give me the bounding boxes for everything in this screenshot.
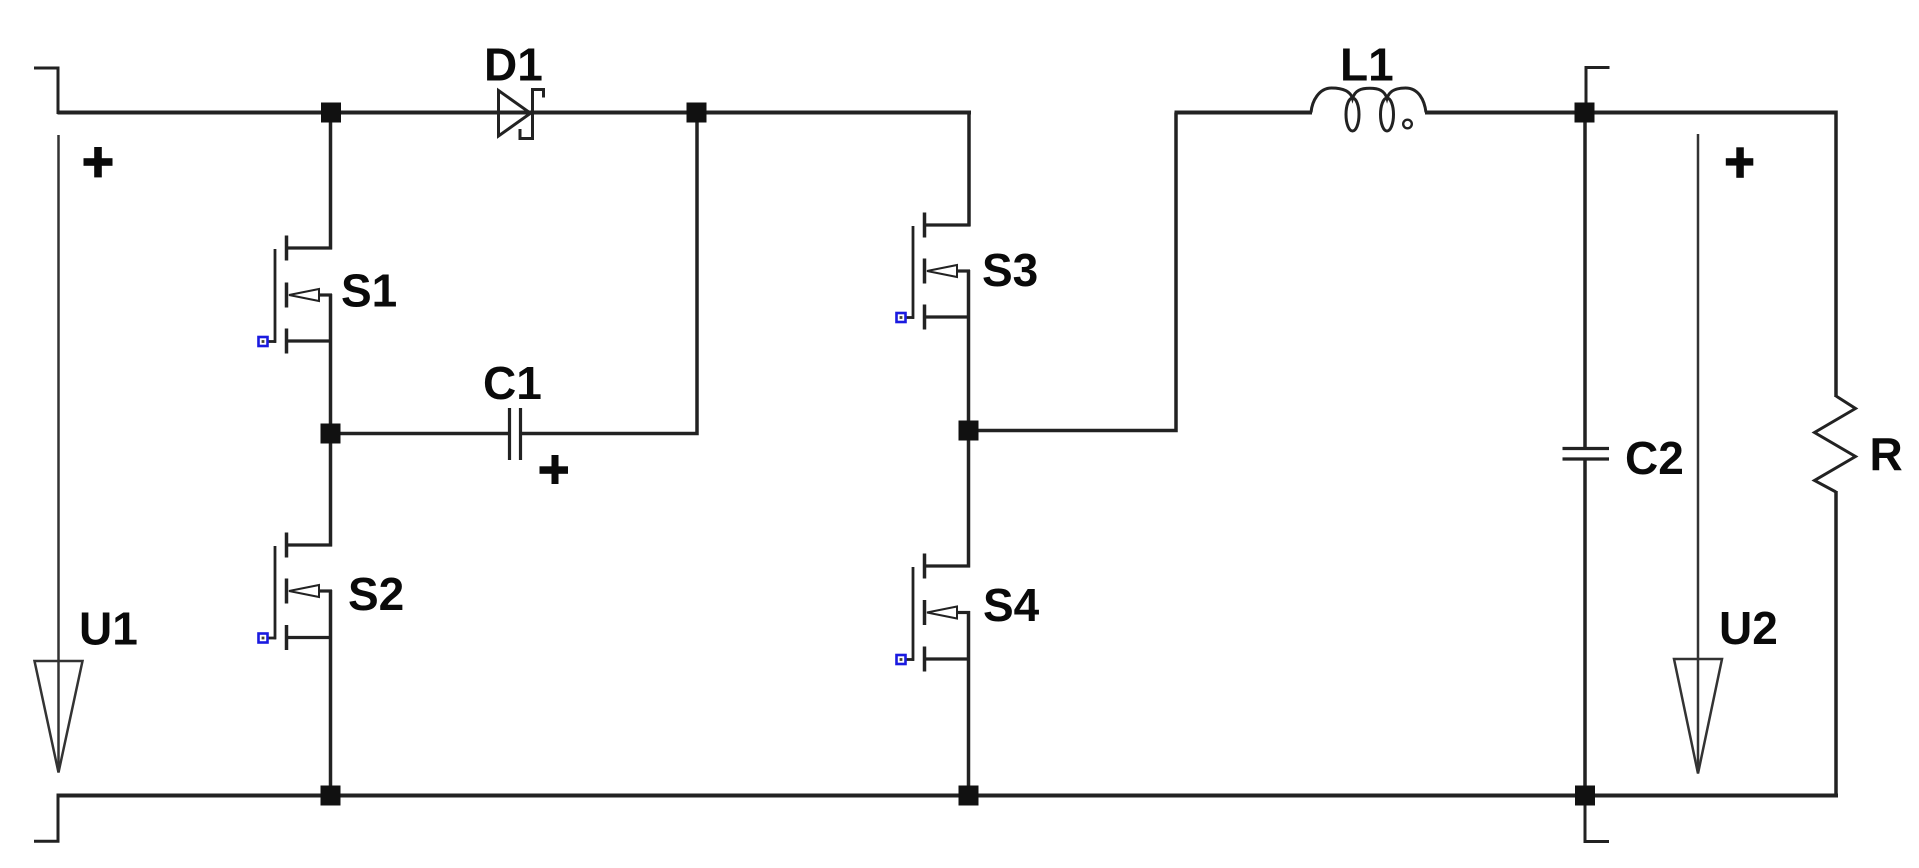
svg-text:L1: L1 [1340, 39, 1394, 91]
svg-text:D1: D1 [484, 39, 543, 91]
svg-text:R: R [1870, 428, 1903, 480]
svg-text:S1: S1 [341, 265, 397, 317]
svg-text:U2: U2 [1719, 602, 1778, 654]
svg-text:S3: S3 [982, 244, 1038, 296]
svg-text:S2: S2 [348, 568, 404, 620]
svg-text:S4: S4 [983, 579, 1040, 631]
svg-text:C2: C2 [1625, 432, 1684, 484]
svg-text:C1: C1 [483, 357, 542, 409]
svg-text:U1: U1 [79, 603, 138, 655]
